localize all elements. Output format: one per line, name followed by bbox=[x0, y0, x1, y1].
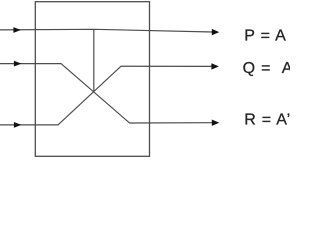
svg-text:Q = A: Q = A bbox=[243, 60, 290, 77]
svg-text:R = A’(: R = A’( bbox=[244, 111, 290, 128]
demux box bbox=[35, 2, 149, 157]
wire input C, diagonal up to output Q bbox=[0, 66, 212, 125]
wire vertical tap from A line to crossing bbox=[93, 29, 95, 91]
wire input A through-line to output P bbox=[0, 29, 213, 32]
svg-text:P = A: P = A bbox=[244, 27, 286, 44]
arrowhead output Q bbox=[211, 63, 219, 69]
wire input B, diagonal down to output R bbox=[0, 64, 213, 123]
arrowhead input B bbox=[14, 61, 22, 67]
arrowhead input C bbox=[14, 122, 22, 128]
arrowhead output P bbox=[212, 29, 220, 35]
arrowhead input A bbox=[13, 27, 21, 33]
arrowhead output R bbox=[212, 120, 220, 126]
